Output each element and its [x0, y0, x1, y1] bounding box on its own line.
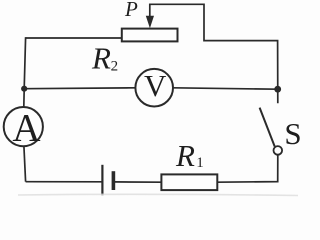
- switch lever: [260, 108, 275, 147]
- svg-text:A: A: [12, 107, 40, 150]
- wire battery to R1: [113, 181, 161, 183]
- resistor R1 body: [161, 174, 217, 190]
- voltmeter circle: [135, 69, 173, 107]
- switch contact circle: [274, 146, 283, 155]
- wire R1 to bottom right corner and up: [217, 155, 277, 183]
- junction node right: [274, 86, 281, 93]
- svg-text:2: 2: [111, 59, 119, 75]
- wire top-left horizontal: [26, 37, 122, 39]
- slider arrowhead P: [146, 16, 154, 28]
- svg-text:V: V: [144, 68, 167, 103]
- faint scan shadow bottom: [18, 194, 298, 195]
- svg-text:R: R: [175, 138, 195, 173]
- svg-text:S: S: [284, 116, 301, 151]
- wire left vertical: [24, 37, 26, 107]
- wire middle right (voltmeter to node): [173, 88, 278, 89]
- wire middle left (node to voltmeter): [24, 87, 135, 90]
- junction node left: [21, 86, 27, 92]
- wire bottom left to battery: [26, 181, 103, 183]
- svg-text:R: R: [91, 40, 111, 75]
- svg-text:1: 1: [196, 155, 204, 171]
- wire slider stem: [149, 4, 151, 19]
- wire ammeter bottom: [24, 146, 26, 182]
- wire slider to right side down to switch: [149, 4, 277, 103]
- battery long plate: [101, 165, 103, 195]
- rheostat R2 body: [122, 29, 178, 42]
- svg-text:P: P: [124, 0, 138, 21]
- ammeter circle: [4, 107, 43, 146]
- battery short plate: [112, 171, 116, 190]
